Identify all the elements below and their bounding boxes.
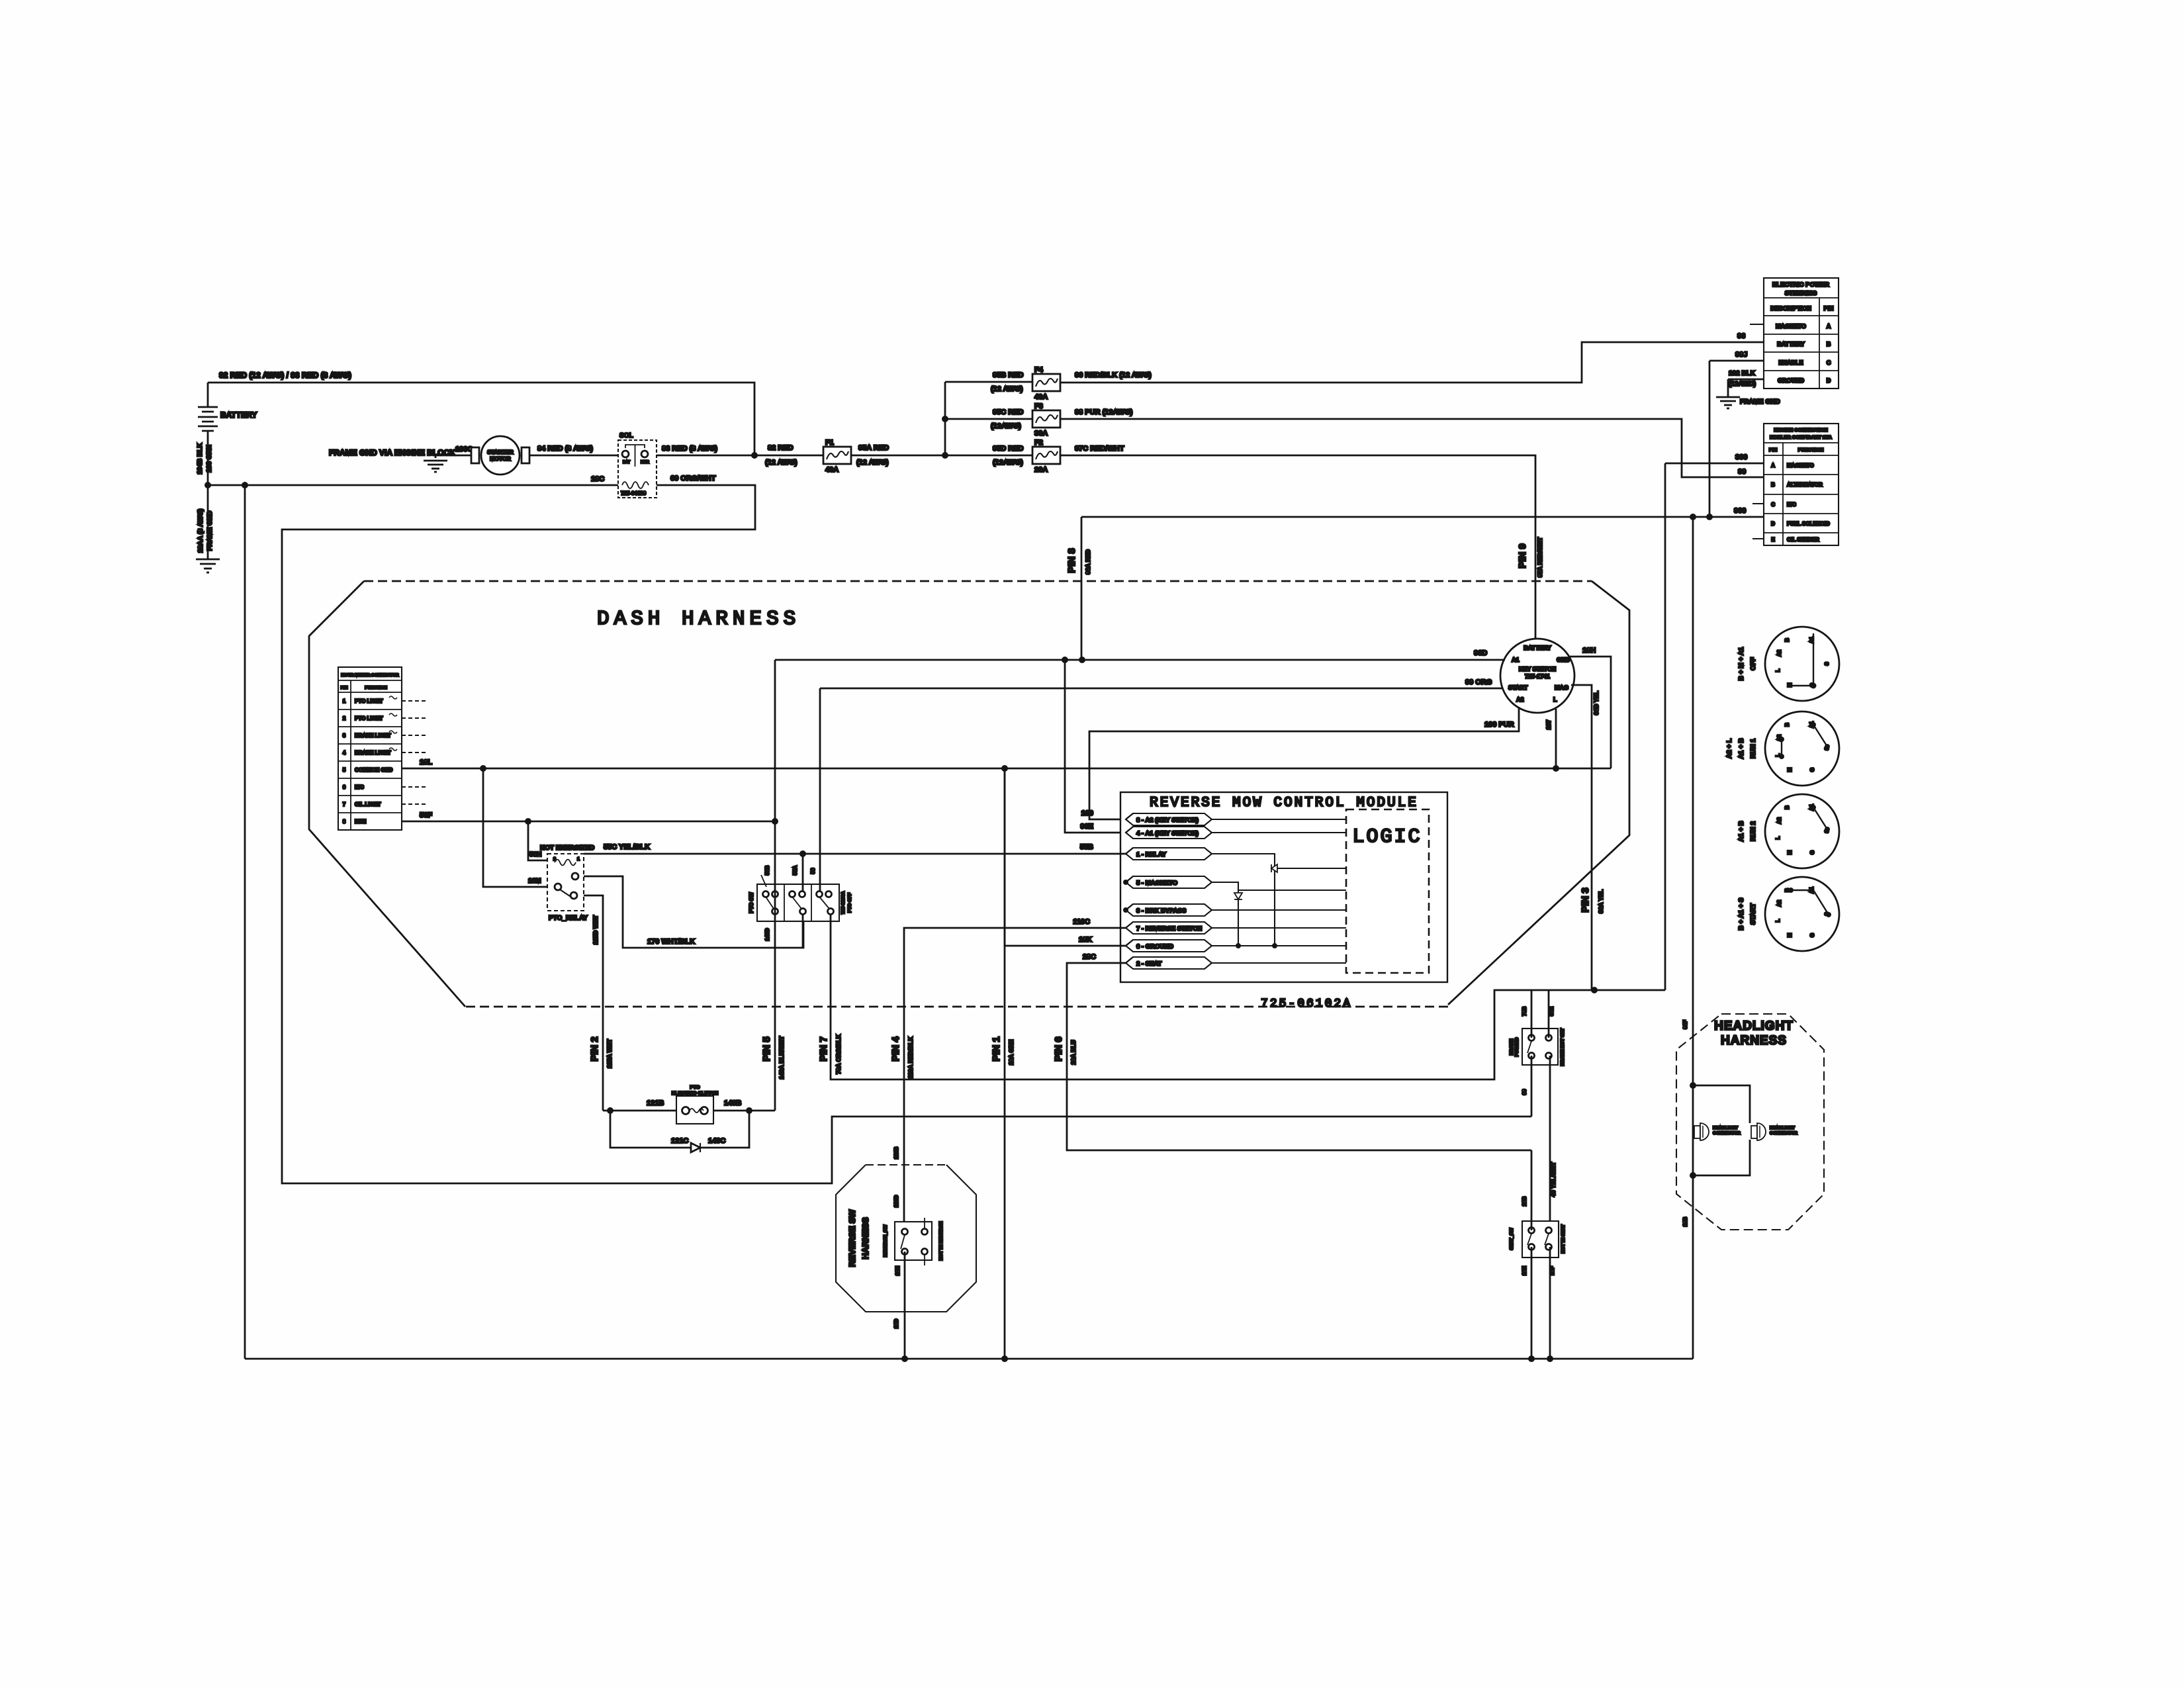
- svg-text:BRAKE: BRAKE: [1510, 1038, 1514, 1055]
- wire module A1 to logic: [1212, 832, 1346, 833]
- svg-text:110D: 110D: [893, 1195, 899, 1207]
- module pin 3 BRK BYPASS: [1126, 904, 1212, 916]
- svg-text:18D: 18D: [893, 1318, 899, 1328]
- svg-text:PTO LIGHT: PTO LIGHT: [355, 698, 383, 704]
- svg-text:28B: 28B: [1522, 1196, 1527, 1206]
- svg-text:B: B: [1784, 805, 1790, 809]
- svg-text:55A: 55A: [792, 865, 798, 875]
- node PIN 7 79A ORG/BLK label: [818, 1034, 842, 1074]
- svg-text:36E: 36E: [1549, 1006, 1555, 1016]
- svg-text:56F: 56F: [420, 811, 432, 819]
- svg-text:E: E: [1771, 537, 1775, 543]
- svg-text:5: 5: [343, 767, 346, 773]
- svg-text:OIL SENDER: OIL SENDER: [1787, 537, 1819, 543]
- svg-text:N/C: N/C: [355, 784, 364, 790]
- svg-text:125D WHT: 125D WHT: [592, 915, 599, 944]
- svg-text:140D: 140D: [764, 928, 770, 940]
- svg-text:2 - SEAT: 2 - SEAT: [1136, 960, 1162, 968]
- svg-text:S: S: [1824, 662, 1830, 666]
- wire 56F run feed: [402, 811, 778, 825]
- dash harness boundary octagon: [309, 581, 1629, 1007]
- module logic block: [1346, 809, 1429, 973]
- wire 69 brake common: [1522, 1056, 1531, 1117]
- svg-text:96 RED/BLK (12 AWG): 96 RED/BLK (12 AWG): [1075, 371, 1152, 379]
- svg-text:110C: 110C: [1073, 918, 1090, 926]
- svg-text:170 WHT/BLK: 170 WHT/BLK: [647, 938, 695, 946]
- svg-text:REVERSE_SW: REVERSE_SW: [884, 1224, 888, 1257]
- svg-text:100 PUR: 100 PUR: [1484, 721, 1514, 729]
- svg-text:B: B: [1827, 341, 1831, 347]
- wire headlight feed down right side: [1692, 517, 1694, 1359]
- svg-text:82 RED: 82 RED: [768, 444, 794, 452]
- svg-text:107: 107: [1545, 719, 1552, 729]
- wire 125D WHT relay to clutch pin2: [584, 895, 603, 1111]
- svg-text:PTO SW: PTO SW: [749, 892, 754, 913]
- svg-text:G: G: [1809, 768, 1815, 772]
- svg-text:4 - A1 (KEY SWITCH): 4 - A1 (KEY SWITCH): [1136, 830, 1199, 837]
- wire 98 PUR (12AWG) to engine alternator: [1060, 408, 1764, 477]
- svg-text:A1: A1: [1512, 657, 1520, 663]
- switch BRAKE: [1510, 1028, 1565, 1066]
- svg-text:PIN 8: PIN 8: [1066, 548, 1077, 573]
- wire module reverse switch to logic: [1212, 927, 1346, 929]
- wire PIN 8 96A RED riser: [1066, 517, 1091, 660]
- wire 100 PUR key A2 to module: [1081, 707, 1519, 819]
- wire 98J enable drop: [1709, 361, 1711, 517]
- svg-text:HARNESS: HARNESS: [1721, 1034, 1787, 1048]
- svg-text:FUNCTION: FUNCTION: [1798, 447, 1824, 453]
- module pin 6 GROUND: [1126, 940, 1212, 952]
- wire 55A riser into pto switch: [792, 854, 803, 891]
- svg-text:140B: 140B: [724, 1099, 741, 1107]
- wire 16M relay contact feed: [483, 768, 547, 887]
- svg-text:(12AWD): (12AWD): [1729, 381, 1756, 388]
- wire 102 BLK (12AWG) EPS ground: [1716, 370, 1780, 408]
- battery BATTERY: [198, 383, 257, 485]
- svg-text:M: M: [1787, 933, 1793, 937]
- svg-text:(12 AWG): (12 AWG): [991, 385, 1023, 393]
- svg-text:56H: 56H: [529, 851, 541, 858]
- svg-text:2: 2: [343, 715, 346, 721]
- svg-text:ENABLE: ENABLE: [1778, 359, 1803, 366]
- solenoid SOL 725-04439: [618, 432, 657, 498]
- switch PTO SW 725-3233A: [749, 875, 852, 921]
- wire hour meter stub pins: [402, 701, 427, 804]
- starter motor M1: [471, 436, 529, 475]
- svg-text:360: 360: [1735, 453, 1747, 461]
- node PIN 1 18A GRN label: [991, 1036, 1015, 1065]
- svg-text:98 PUR (12AWG): 98 PUR (12AWG): [1075, 408, 1133, 416]
- svg-text:RUN 1: RUN 1: [1750, 739, 1757, 758]
- svg-text:A: A: [1771, 463, 1775, 469]
- wire module ground to logic: [1212, 945, 1346, 946]
- svg-text:F4: F4: [1034, 366, 1044, 374]
- svg-text:BRAKE LIGHT: BRAKE LIGHT: [355, 733, 391, 739]
- svg-text:6: 6: [343, 784, 346, 790]
- svg-text:ENGINE CONNECTION: ENGINE CONNECTION: [1774, 427, 1827, 433]
- wire 96E to module A1: [1065, 660, 1126, 833]
- wire 18C to solenoid lower: [208, 475, 618, 485]
- svg-text:96F: 96F: [1682, 1020, 1688, 1029]
- svg-text:C: C: [1827, 359, 1831, 366]
- svg-text:CONNECTOR: CONNECTOR: [1713, 1131, 1741, 1136]
- svg-text:F1: F1: [825, 439, 834, 447]
- module pin 2 SEAT: [1126, 957, 1212, 969]
- svg-text:MAGNETO: MAGNETO: [1787, 463, 1814, 469]
- svg-text:F3: F3: [1034, 402, 1043, 410]
- svg-text:16M: 16M: [528, 878, 541, 885]
- ground frame gnd via engine block: [329, 448, 455, 472]
- wire 79B brake set lead: [1522, 990, 1531, 1038]
- svg-text:BRAKE LIGHT: BRAKE LIGHT: [355, 750, 391, 756]
- lamp headlight left: [1694, 1123, 1741, 1140]
- svg-text:84 RED (8 AWG): 84 RED (8 AWG): [537, 445, 593, 453]
- wire 95A RED (12 AWG): [851, 444, 945, 467]
- svg-text:18C: 18C: [591, 475, 604, 483]
- fuse F4 40A: [1032, 366, 1060, 401]
- switch REVERSE_SW: [884, 1218, 944, 1265]
- svg-text:56: 56: [810, 868, 816, 874]
- svg-text:PUSHED: PUSHED: [1515, 1037, 1520, 1056]
- clutch PTO electric clutch: [672, 1084, 718, 1124]
- svg-text:96D: 96D: [1474, 649, 1487, 657]
- wire 96 RED/BLK (12 AWG) to EPS battery: [1060, 332, 1764, 383]
- lamp headlight right: [1751, 1123, 1797, 1140]
- svg-text:STEERING: STEERING: [1785, 290, 1817, 297]
- wire 360 magneto kill: [1665, 453, 1764, 990]
- svg-text:7: 7: [343, 801, 346, 807]
- svg-text:BAT: BAT: [623, 461, 631, 465]
- svg-text:B: B: [1784, 638, 1790, 642]
- svg-text:CONNECTOR: CONNECTOR: [1770, 1131, 1797, 1136]
- svg-text:95B RED: 95B RED: [993, 371, 1024, 379]
- svg-text:PIN 7: PIN 7: [818, 1036, 829, 1062]
- module pin 8 A2: [1126, 813, 1212, 825]
- wire 140D pto switch to clutch pin5: [764, 660, 775, 1111]
- svg-text:104B BLK: 104B BLK: [197, 443, 204, 475]
- svg-text:96: 96: [1737, 332, 1745, 340]
- svg-text:100C: 100C: [455, 445, 473, 453]
- wire engine oil sender stub: [1752, 538, 1764, 539]
- svg-text:56B: 56B: [764, 865, 770, 875]
- svg-text:99 ORG: 99 ORG: [1465, 678, 1492, 686]
- module pin 7 REVERSE SWITCH: [1126, 922, 1212, 934]
- svg-text:725-04439: 725-04439: [621, 490, 647, 496]
- wire module relay to logic with diode: [1212, 854, 1346, 948]
- svg-text:PIN 3: PIN 3: [1580, 888, 1591, 913]
- wire engine N/C stub: [1752, 503, 1764, 504]
- svg-text:MOTOR: MOTOR: [490, 455, 510, 462]
- svg-text:40 YEL/WHT: 40 YEL/WHT: [1550, 1162, 1557, 1197]
- svg-text:FUEL SOLENOID: FUEL SOLENOID: [1787, 521, 1830, 527]
- svg-text:A2: A2: [1776, 649, 1782, 657]
- node PIN 9 label: [1517, 537, 1543, 577]
- svg-text:OFF: OFF: [1750, 657, 1757, 670]
- svg-text:960: 960: [1734, 507, 1746, 515]
- svg-text:18E: 18E: [1522, 1265, 1527, 1275]
- wire ground bus bottom: [245, 1355, 1693, 1362]
- svg-text:A: A: [1827, 323, 1831, 330]
- svg-text:START: START: [1750, 903, 1757, 925]
- fuse F1 40A: [823, 439, 851, 474]
- relay PTO_RELAY: [540, 845, 594, 922]
- svg-text:B + A1 + S: B + A1 + S: [1738, 897, 1745, 930]
- svg-text:SOL: SOL: [619, 432, 633, 439]
- svg-text:18N: 18N: [895, 1265, 901, 1275]
- svg-text:BRAKE NOT SET: BRAKE NOT SET: [1561, 1028, 1565, 1066]
- svg-text:RUN: RUN: [355, 819, 367, 825]
- wire 96D key battery feed: [775, 649, 1505, 663]
- svg-text:G: G: [1809, 850, 1815, 854]
- svg-text:HOUR METER CONNECTOR: HOUR METER CONNECTOR: [341, 673, 399, 678]
- svg-text:36A YEL: 36A YEL: [1598, 889, 1604, 913]
- svg-text:95C RED: 95C RED: [993, 408, 1024, 416]
- wire 28B seat switch feed: [1522, 1150, 1531, 1230]
- wire module magneto to logic with diode: [1212, 882, 1346, 948]
- wire 18E seat ground: [1522, 1247, 1531, 1359]
- key switch position RUN 2: [1738, 794, 1839, 868]
- svg-text:HEADLIGHT: HEADLIGHT: [1714, 1019, 1794, 1033]
- svg-text:BATTERY: BATTERY: [1524, 645, 1551, 651]
- module pin 5 MAGNETO: [1126, 876, 1212, 888]
- key switch position START: [1738, 877, 1839, 951]
- svg-text:DASH HARNESS: DASH HARNESS: [597, 608, 800, 631]
- svg-text:92 RED (12 AWG) / 93 RED (8 AW: 92 RED (12 AWG) / 93 RED (8 AWG): [219, 371, 351, 380]
- node PIN 3 36A YEL label: [1580, 888, 1604, 913]
- svg-text:HEADLIGHT: HEADLIGHT: [1770, 1126, 1795, 1130]
- wire 18H key ground: [1570, 647, 1611, 768]
- svg-text:140C: 140C: [708, 1137, 725, 1145]
- svg-text:PIN 1: PIN 1: [991, 1036, 1002, 1062]
- wire fuse branch riser: [944, 382, 946, 455]
- key switch position RUN 1: [1726, 711, 1839, 786]
- wire 95C RED (12AWG): [945, 408, 1032, 430]
- svg-text:121B: 121B: [647, 1099, 664, 1107]
- wire 56 riser into pto switch from 99 ORG: [810, 688, 820, 891]
- svg-text:3: 3: [343, 733, 346, 739]
- svg-text:110B: 110B: [893, 1146, 899, 1159]
- svg-text:STARTER: STARTER: [487, 449, 514, 455]
- wire 121B clutch left: [603, 1099, 676, 1114]
- node solenoid output junction: [751, 452, 758, 459]
- wire 56H relay coil feed: [528, 821, 547, 860]
- wire 79C pto switch to pin7: [831, 914, 1665, 1079]
- reverse sw harness boundary octagon: [836, 1165, 976, 1312]
- wire 40 YEL/WHT brake to seat: [1550, 1056, 1557, 1230]
- svg-text:A1 + B: A1 + B: [1738, 821, 1745, 841]
- svg-text:L: L: [1775, 668, 1781, 672]
- svg-text:G: G: [1809, 933, 1815, 937]
- svg-text:19B: 19B: [1682, 1216, 1688, 1226]
- wire module A2 to logic: [1212, 819, 1346, 820]
- svg-text:D: D: [1827, 377, 1831, 384]
- table engine connection kohler confidant: [1764, 424, 1839, 545]
- svg-text:KOHLER CONFIDANT 25A: KOHLER CONFIDANT 25A: [1770, 434, 1832, 440]
- wire 99 ORG key start feed: [820, 678, 1503, 688]
- node fuse branch junction: [942, 416, 948, 459]
- svg-text:18F: 18F: [1549, 1266, 1555, 1275]
- svg-text:FRAME GND: FRAME GND: [206, 511, 214, 551]
- svg-text:A2: A2: [1776, 899, 1782, 907]
- svg-text:PIN: PIN: [1769, 447, 1778, 453]
- svg-text:M: M: [1787, 850, 1793, 854]
- key switch position OFF: [1738, 627, 1839, 701]
- svg-text:REVERSE MOW CONTROL MODULE: REVERSE MOW CONTROL MODULE: [1150, 796, 1418, 811]
- wire 18 ground bus horizontal: [402, 758, 1611, 772]
- svg-text:5 - MAGNETO: 5 - MAGNETO: [1136, 880, 1177, 887]
- svg-text:PTO OFF: PTO OFF: [848, 892, 852, 913]
- svg-text:KEY SWITCH: KEY SWITCH: [1519, 666, 1556, 672]
- svg-text:GROUND: GROUND: [1778, 377, 1804, 384]
- wire 140B clutch right: [713, 1099, 775, 1114]
- svg-text:725-06102A: 725-06102A: [1261, 997, 1352, 1011]
- ground frame ground at battery: [196, 485, 220, 572]
- svg-text:A1 + B: A1 + B: [1738, 738, 1745, 758]
- wire 960 fuel solenoid rail: [1081, 507, 1764, 520]
- key switch 725-1741: [1500, 639, 1574, 713]
- svg-text:PIN 2: PIN 2: [589, 1036, 600, 1062]
- svg-text:1 - RELAY: 1 - RELAY: [1136, 851, 1167, 858]
- node module magneto/brk left edge dots: [1123, 880, 1128, 913]
- svg-text:8 - A2 (KEY SWITCH): 8 - A2 (KEY SWITCH): [1136, 817, 1199, 824]
- svg-text:4: 4: [343, 750, 346, 756]
- svg-text:HEADLIGHT: HEADLIGHT: [1713, 1126, 1738, 1130]
- table electric power steering connector: [1764, 278, 1839, 388]
- svg-text:L: L: [1775, 919, 1781, 922]
- wire 28C module seat lead: [1067, 953, 1531, 1150]
- svg-text:140A BLU/WHT: 140A BLU/WHT: [778, 1036, 785, 1079]
- svg-text:28C: 28C: [1083, 953, 1096, 961]
- svg-text:B: B: [1771, 482, 1775, 488]
- wire 55C YEL/BLK relay to module: [584, 843, 1126, 857]
- wire 98J EPS enable: [1709, 351, 1764, 361]
- wire 95B RED (12 AWG): [945, 371, 1032, 393]
- svg-text:MTR: MTR: [641, 461, 650, 465]
- svg-text:L: L: [1553, 696, 1557, 703]
- svg-text:PTO LIGHT: PTO LIGHT: [355, 715, 383, 721]
- svg-text:PIN 5: PIN 5: [761, 1036, 772, 1062]
- svg-text:B: B: [1784, 723, 1790, 727]
- svg-text:BATTERY: BATTERY: [220, 410, 257, 420]
- wire 107 key A2 ground drop: [1545, 709, 1556, 768]
- wire 110B into reverse switch: [893, 1146, 899, 1207]
- wire 104B BLK / 108 GRN battery negative lead labels: [197, 443, 213, 475]
- wire PIN 1 ground drop to bus: [1004, 768, 1006, 1359]
- svg-text:2: 2: [553, 857, 556, 862]
- svg-text:18L: 18L: [420, 758, 432, 766]
- svg-text:F2: F2: [1034, 439, 1043, 447]
- wire 97C RED/WHT to key switch PIN 9: [1060, 445, 1535, 639]
- svg-text:PIN 9: PIN 9: [1517, 543, 1528, 569]
- svg-text:MAGNETO: MAGNETO: [1776, 323, 1806, 330]
- module reverse mow control outer box: [1120, 792, 1447, 982]
- svg-text:FRAME GND: FRAME GND: [1740, 398, 1780, 406]
- node PIN 4 110A RED/BLK label: [890, 1036, 914, 1079]
- svg-text:6 - GROUND: 6 - GROUND: [1136, 943, 1173, 950]
- wire 96F headlight feed label: [1682, 1020, 1688, 1226]
- wire 170 WHT/BLK relay contact to pto switch: [584, 876, 803, 948]
- wire 18N 18D reverse switch ground: [893, 1252, 905, 1359]
- svg-text:30A: 30A: [1034, 430, 1048, 437]
- svg-text:PIN 4: PIN 4: [890, 1036, 901, 1062]
- svg-text:A2 + L: A2 + L: [1726, 739, 1733, 758]
- svg-text:B + M + A1: B + M + A1: [1738, 647, 1745, 680]
- fuse F2 20A: [1032, 439, 1060, 474]
- wire 36D YEL key magneto: [1571, 685, 1600, 990]
- svg-text:99: 99: [1738, 468, 1746, 476]
- wire module brk bypass to logic: [1212, 909, 1346, 911]
- svg-text:COMMON GND: COMMON GND: [355, 767, 393, 773]
- svg-text:69 ORG/WHT: 69 ORG/WHT: [670, 475, 716, 482]
- wire 36E brake not set lead: [1549, 990, 1555, 1038]
- svg-text:18A GRN: 18A GRN: [1008, 1040, 1015, 1066]
- svg-text:96A RED: 96A RED: [1085, 549, 1091, 574]
- svg-text:BATTERY: BATTERY: [1777, 341, 1805, 347]
- svg-text:79B: 79B: [1522, 1006, 1527, 1016]
- svg-text:ELECTRIC POWER: ELECTRIC POWER: [1772, 281, 1829, 289]
- wire 84 RED (8 AWG): [529, 445, 618, 455]
- svg-text:A2: A2: [1776, 817, 1782, 824]
- svg-text:NOT IN SEAT: NOT IN SEAT: [1561, 1224, 1566, 1254]
- svg-text:125A WHT: 125A WHT: [606, 1038, 613, 1068]
- svg-text:36D YEL: 36D YEL: [1593, 690, 1600, 715]
- svg-text:18K: 18K: [1079, 936, 1092, 944]
- svg-text:ALTERNATOR: ALTERNATOR: [1787, 482, 1823, 488]
- svg-text:PIN 6: PIN 6: [1053, 1036, 1064, 1062]
- wire 56B riser into pto switch: [764, 865, 770, 875]
- wire 100C starter ground lead: [435, 445, 473, 455]
- fuse F3 30A: [1032, 402, 1060, 437]
- svg-text:121C: 121C: [671, 1137, 688, 1145]
- svg-text:102 BLK: 102 BLK: [1729, 370, 1756, 377]
- svg-text:40A: 40A: [825, 466, 839, 474]
- module pin 1 RELAY: [1126, 848, 1212, 860]
- svg-text:MAG: MAG: [1555, 684, 1569, 691]
- svg-text:PIN: PIN: [1823, 305, 1833, 312]
- svg-text:LOGIC: LOGIC: [1352, 826, 1422, 848]
- wire 83 RED (8 AWG): [657, 445, 754, 455]
- svg-text:40A: 40A: [1034, 393, 1048, 401]
- wire 82 RED (12 AWG): [754, 444, 823, 467]
- wire EPS magneto stub: [1750, 324, 1764, 325]
- svg-text:725-1741: 725-1741: [1525, 673, 1550, 680]
- svg-text:M: M: [1787, 767, 1793, 772]
- wire left vertical ground bus to bottom: [244, 485, 246, 1359]
- table hour meter connector: [338, 667, 402, 830]
- svg-text:PTO: PTO: [690, 1084, 700, 1090]
- svg-text:98J: 98J: [1735, 351, 1747, 359]
- svg-text:110A RED/BLK: 110A RED/BLK: [907, 1036, 914, 1079]
- svg-text:79A ORG/BLK: 79A ORG/BLK: [835, 1034, 842, 1074]
- svg-text:ELECTRIC CLUTCH: ELECTRIC CLUTCH: [672, 1090, 718, 1096]
- wire pto switch middle stub: [802, 914, 804, 948]
- svg-text:8: 8: [343, 819, 346, 825]
- switch SEAT_SW: [1510, 1221, 1566, 1257]
- svg-text:FUNCTION: FUNCTION: [365, 686, 387, 690]
- svg-text:100: 100: [1081, 809, 1093, 817]
- svg-text:C: C: [1771, 502, 1775, 508]
- svg-text:N/C: N/C: [1787, 502, 1796, 508]
- svg-text:725-3233A: 725-3233A: [841, 891, 846, 915]
- node PIN 6 28A BLU label: [1053, 1036, 1077, 1064]
- svg-text:A2: A2: [1516, 696, 1524, 703]
- headlight harness boundary octagon: [1676, 1014, 1824, 1230]
- svg-text:55B: 55B: [1080, 843, 1093, 851]
- svg-text:83 RED (8 AWG): 83 RED (8 AWG): [662, 445, 717, 453]
- node battery ground junction: [205, 482, 248, 488]
- svg-text:108 GRN: 108 GRN: [206, 445, 213, 473]
- svg-text:NOT IN REVERSE: NOT IN REVERSE: [939, 1221, 944, 1260]
